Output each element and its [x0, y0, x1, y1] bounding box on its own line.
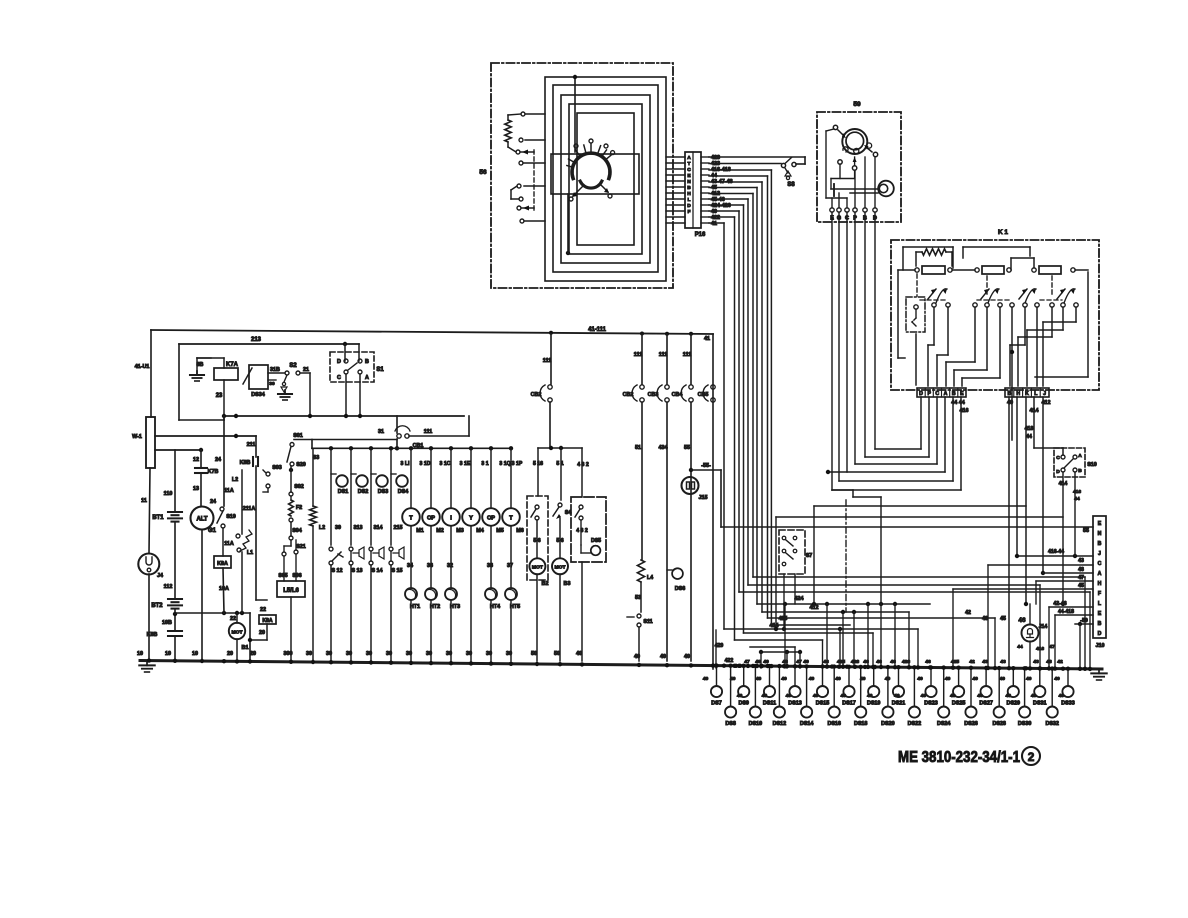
battery BT1: [168, 511, 182, 513]
svg-text:46: 46: [876, 659, 882, 665]
svg-text:40: 40: [684, 654, 690, 660]
svg-text:42: 42: [969, 659, 975, 665]
svg-text:DS17: DS17: [842, 701, 856, 707]
svg-text:DS25: DS25: [952, 701, 966, 707]
svg-text:42: 42: [1057, 659, 1063, 665]
svg-text:43: 43: [1078, 558, 1084, 564]
svg-text:111: 111: [543, 358, 551, 364]
sender 59 harness verticals: [831, 212, 833, 490]
svg-text:40: 40: [867, 693, 873, 699]
motor B1: [236, 613, 238, 623]
svg-text:24: 24: [210, 499, 216, 505]
inner rectangle around rotary wafer: [551, 154, 639, 194]
lamp J14: [1029, 604, 1031, 624]
ground at left end of bus: [146, 661, 148, 665]
svg-text:B: B: [1078, 468, 1082, 474]
P16 pin 11 (422): [666, 216, 685, 218]
switch box S1 (dashed): [330, 352, 374, 382]
P16 pin 1 (423): [666, 156, 685, 158]
P16 pin 4 (44): [666, 174, 685, 176]
svg-text:S7: S7: [806, 553, 813, 559]
svg-text:50: 50: [531, 651, 537, 657]
left feed wire 41-U1: [150, 330, 152, 417]
svg-text:BT2: BT2: [151, 603, 163, 609]
svg-text:41-U1: 41-U1: [135, 364, 150, 370]
svg-text:ALT: ALT: [196, 517, 207, 523]
svg-text:34: 34: [407, 563, 413, 569]
rotary lower contact arrows: [573, 186, 583, 196]
lamp DS31: [1039, 669, 1041, 687]
svg-text:40: 40: [737, 693, 743, 699]
svg-text:32: 32: [447, 563, 453, 569]
svg-text:L1: L1: [247, 550, 253, 556]
mesh vertical drops to bus: [784, 604, 786, 668]
arrow contact right of 59 body: [866, 147, 872, 152]
svg-text:3B: 3B: [197, 362, 204, 368]
rotary switch wafer: [572, 153, 610, 178]
svg-text:5 6: 5 6: [556, 538, 563, 544]
K1 contact dashed links: [920, 299, 946, 301]
lamp DS6: [667, 569, 672, 571]
bus y=416: [155, 435, 256, 437]
svg-text:40: 40: [809, 676, 815, 682]
wire - center feed in 56: [574, 77, 576, 152]
svg-text:46: 46: [925, 659, 931, 665]
svg-text:50: 50: [554, 651, 560, 657]
svg-text:F: F: [1098, 591, 1101, 597]
svg-text:40: 40: [634, 654, 640, 660]
svg-text:10A: 10A: [219, 586, 229, 592]
svg-text:38: 38: [487, 563, 493, 569]
svg-text:BT1: BT1: [152, 515, 164, 521]
svg-text:40: 40: [1005, 693, 1011, 699]
svg-text:DS14: DS14: [800, 721, 814, 727]
ground near K7A: [196, 358, 198, 375]
svg-text:A: A: [1078, 453, 1082, 459]
switch S02: [289, 492, 293, 496]
K1 inner sub-box (dash-dot): [906, 297, 925, 332]
svg-text:OP: OP: [427, 516, 435, 522]
svg-text:43: 43: [1000, 659, 1006, 665]
svg-text:416: 416: [1036, 646, 1044, 652]
svg-text:40: 40: [917, 676, 923, 682]
resistor R3 in K1: [1039, 266, 1061, 274]
svg-text:J15: J15: [699, 495, 708, 501]
rotary contact ticks: [576, 150, 580, 155]
main ground bus: [140, 661, 1102, 670]
switch S14: [369, 547, 373, 551]
svg-text:DS27: DS27: [979, 701, 993, 707]
svg-text:L4: L4: [647, 575, 653, 581]
wire from K1 terminal x=961: [960, 397, 962, 490]
svg-text:42: 42: [965, 610, 971, 616]
svg-text:30: 30: [466, 651, 472, 657]
svg-text:47: 47: [796, 659, 802, 665]
wire from BT2 junction to K6A column: [175, 612, 250, 614]
svg-text:T: T: [509, 516, 513, 522]
relay K6A: [214, 556, 231, 568]
svg-text:K8B: K8B: [240, 460, 251, 466]
svg-text:425: 425: [951, 659, 960, 665]
svg-text:CB5: CB5: [698, 392, 709, 398]
svg-text:30: 30: [406, 651, 412, 657]
svg-text:DS23: DS23: [924, 701, 938, 707]
svg-text:30: 30: [446, 651, 452, 657]
gauge M2 (OP): [430, 449, 432, 508]
lamp unit DS5 box: [571, 497, 606, 562]
wire from P16 pin 5: [709, 181, 762, 183]
svg-text:L: L: [1034, 391, 1037, 397]
svg-text:10: 10: [192, 651, 198, 657]
svg-text:DS3: DS3: [378, 489, 389, 495]
P16 pin 2 (423): [666, 162, 685, 164]
lamp DS7: [716, 666, 718, 686]
left contact circles lower: [517, 184, 521, 188]
svg-text:59: 59: [853, 101, 861, 108]
K1 top wire: [903, 246, 953, 248]
svg-text:S05: S05: [278, 573, 287, 579]
bus 31 feeding panel lamps: [312, 447, 511, 449]
svg-text:K: K: [1025, 391, 1029, 397]
svg-text:40: 40: [781, 676, 787, 682]
svg-text:3 1: 3 1: [481, 461, 488, 467]
svg-text:DS19: DS19: [867, 701, 881, 707]
svg-text:-55-: -55-: [701, 463, 711, 469]
heater HT4: [490, 526, 492, 588]
svg-text:418: 418: [1025, 426, 1034, 432]
wire from P16 pin 9: [709, 204, 744, 206]
motor unit B3: [558, 503, 562, 507]
svg-text:L2: L2: [232, 477, 238, 483]
svg-text:DS18: DS18: [854, 721, 868, 727]
wire from S01 to CB1 area: [294, 439, 397, 441]
svg-text:48: 48: [1078, 567, 1084, 573]
svg-text:D: D: [919, 391, 923, 397]
svg-text:CB3: CB3: [648, 392, 659, 398]
svg-text:10B: 10B: [162, 620, 172, 626]
svg-text:45: 45: [1000, 616, 1006, 622]
motor unit B2 (dashed box): [527, 496, 548, 580]
terminal C of 59: [845, 208, 849, 212]
svg-text:40: 40: [660, 654, 666, 660]
svg-text:111: 111: [634, 352, 642, 358]
svg-text:44: 44: [1026, 434, 1032, 440]
svg-text:43: 43: [1033, 659, 1039, 665]
svg-text:40: 40: [756, 676, 762, 682]
junction to J15: [689, 468, 693, 472]
lamp DS14: [806, 666, 808, 706]
svg-text:414: 414: [1059, 481, 1068, 487]
svg-text:DS6: DS6: [675, 586, 686, 592]
mechanical link dashes: [533, 150, 535, 210]
svg-text:46: 46: [1018, 617, 1026, 624]
staircase wire right of 59: [832, 489, 853, 491]
svg-text:E: E: [960, 391, 964, 397]
svg-text:S06: S06: [292, 573, 301, 579]
terminal P of 59: [853, 208, 857, 212]
svg-text:30: 30: [306, 651, 312, 657]
svg-text:M6: M6: [516, 528, 524, 534]
svg-text:40: 40: [972, 676, 978, 682]
svg-text:DS24: DS24: [937, 721, 951, 727]
lamp DS24: [943, 668, 945, 706]
svg-text:M1: M1: [416, 528, 424, 534]
right mesh verticals: [987, 565, 989, 668]
svg-text:DS31: DS31: [1033, 701, 1047, 707]
svg-text:B1: B1: [242, 645, 249, 651]
svg-text:F: F: [688, 209, 691, 215]
svg-text:424: 424: [795, 596, 804, 602]
svg-text:434: 434: [659, 445, 668, 451]
svg-text:20: 20: [259, 630, 265, 636]
P16 pin 5 (43-47-48): [666, 180, 685, 182]
svg-text:43: 43: [1046, 659, 1052, 665]
svg-text:426: 426: [851, 659, 860, 665]
svg-text:37: 37: [507, 563, 513, 569]
svg-text:4 3 2: 4 3 2: [576, 528, 588, 534]
svg-text:C: C: [1056, 455, 1060, 461]
svg-text:DS20: DS20: [881, 721, 895, 727]
svg-text:H: H: [1098, 581, 1102, 587]
lamp DS4: [390, 449, 392, 545]
svg-text:DS4: DS4: [398, 489, 409, 495]
lamp DS25: [958, 668, 960, 686]
lamp DS19: [873, 667, 875, 686]
svg-text:B3: B3: [564, 581, 571, 587]
svg-text:DS28: DS28: [992, 721, 1006, 727]
lamp DS22: [913, 667, 915, 706]
svg-text:M4: M4: [476, 528, 484, 534]
wire from 213 into S1: [344, 344, 346, 361]
K1 contact arms: [928, 289, 936, 299]
lamp DS17: [848, 667, 850, 686]
svg-text:36: 36: [427, 563, 433, 569]
svg-text:D: D: [687, 203, 691, 209]
K1 terminal strip B H K L J: [1005, 388, 1049, 397]
svg-text:B2: B2: [542, 581, 549, 587]
svg-text:K6A: K6A: [217, 561, 228, 567]
P16 pin 7 (412): [666, 192, 685, 194]
lamp DS3: [370, 449, 372, 545]
wire from K1 terminal x=929: [928, 397, 930, 457]
svg-text:30: 30: [386, 651, 392, 657]
svg-text:40: 40: [703, 676, 709, 682]
sender body circle: [842, 129, 867, 154]
svg-text:11A: 11A: [224, 488, 234, 494]
switch S8: [709, 156, 805, 158]
svg-text:425: 425: [779, 616, 788, 622]
svg-text:40: 40: [1058, 693, 1064, 699]
svg-text:40: 40: [840, 693, 846, 699]
svg-text:46: 46: [823, 659, 829, 665]
svg-text:20: 20: [227, 651, 233, 657]
svg-text:56: 56: [479, 169, 487, 176]
lamp unit L5/L6: [277, 581, 305, 597]
inductor L2 (panel): [312, 448, 314, 506]
pull-chain of S2: [284, 375, 287, 382]
svg-text:CB2: CB2: [623, 392, 634, 398]
svg-text:30: 30: [269, 381, 275, 387]
lamp DS18: [860, 667, 862, 706]
svg-text:DS22: DS22: [908, 721, 922, 727]
svg-text:S03: S03: [272, 465, 282, 471]
wire 211 / capacitor K8B column: [255, 436, 257, 457]
resistor R1 in K1: [922, 266, 945, 274]
svg-text:211: 211: [247, 442, 256, 448]
terminal D of 59: [873, 208, 877, 212]
svg-text:J14: J14: [1039, 624, 1048, 630]
svg-text:K8A: K8A: [262, 618, 273, 624]
svg-text:10: 10: [165, 651, 171, 657]
lamp DS32: [1051, 669, 1053, 706]
svg-text:A: A: [687, 155, 691, 161]
svg-text:111: 111: [683, 352, 691, 358]
svg-text:S02: S02: [294, 484, 304, 490]
svg-text:215: 215: [394, 525, 403, 531]
svg-text:111: 111: [659, 352, 667, 358]
wires into J10: [988, 564, 1093, 566]
svg-text:CB2: CB2: [531, 392, 542, 398]
wire from P16 pin 7: [709, 193, 753, 195]
switch S2: [285, 371, 289, 375]
svg-text:DS34: DS34: [251, 392, 265, 398]
svg-text:43: 43: [982, 616, 988, 622]
svg-text:DS7: DS7: [711, 701, 722, 707]
svg-text:B: B: [952, 391, 956, 397]
svg-text:55: 55: [1083, 528, 1089, 534]
svg-text:J4: J4: [157, 573, 163, 579]
lamp DS15: [822, 667, 824, 687]
wire from K1 terminal x=945: [944, 397, 946, 472]
svg-text:S10: S10: [1087, 462, 1097, 468]
svg-text:MOT: MOT: [231, 630, 242, 636]
svg-text:M3: M3: [456, 528, 464, 534]
relay K7A: [214, 368, 238, 380]
left contact group of 56 - resistor: [505, 120, 511, 142]
svg-text:DS16: DS16: [827, 721, 841, 727]
svg-text:53: 53: [635, 595, 641, 601]
svg-text:B: B: [687, 185, 691, 191]
svg-text:B: B: [1008, 391, 1012, 397]
svg-text:A: A: [365, 375, 369, 381]
svg-text:30: 30: [506, 651, 512, 657]
svg-text:425: 425: [837, 659, 846, 665]
wire 41-111 top bus: [151, 330, 713, 334]
wire 11: [149, 468, 150, 553]
wire from K1 terminal x=921: [920, 397, 922, 449]
feed split to B2 B3 432: [538, 447, 582, 449]
wire from P16 pin 4: [709, 175, 768, 177]
svg-text:M5: M5: [496, 528, 504, 534]
svg-text:S 12: S 12: [331, 568, 342, 574]
svg-text:F2: F2: [296, 505, 302, 511]
svg-text:M2: M2: [436, 528, 444, 534]
terminal B of 59: [863, 208, 867, 212]
svg-text:112: 112: [164, 584, 173, 590]
wire from P16 pin 11: [709, 216, 735, 218]
svg-text:41: 41: [704, 336, 710, 342]
capacitor K6B: [168, 630, 182, 632]
svg-text:A: A: [1098, 571, 1102, 577]
wire 24 column: [223, 416, 225, 506]
switch S13: [349, 547, 353, 551]
svg-text:S8: S8: [787, 182, 795, 188]
K1 terminal strip D P C A B E: [917, 388, 966, 397]
svg-text:12: 12: [193, 457, 199, 463]
svg-text:L: L: [688, 197, 691, 203]
svg-text:44: 44: [1074, 496, 1080, 502]
arrow into 59 body: [838, 130, 844, 136]
relay K8A: [259, 615, 276, 624]
alternator G1: [191, 507, 214, 530]
resistor L4: [637, 560, 644, 582]
resistor (zigzag) in K1: [922, 249, 946, 255]
gauge M3 (I): [450, 449, 452, 508]
battery BT2: [168, 598, 182, 600]
svg-text:416-44: 416-44: [1048, 549, 1064, 555]
svg-text:40: 40: [786, 693, 792, 699]
lamp DS11: [769, 666, 771, 686]
P16 pin 9 (424-426): [666, 204, 685, 206]
svg-text:10: 10: [137, 651, 143, 657]
svg-text:D: D: [337, 359, 341, 365]
svg-text:3 1P: 3 1P: [512, 461, 523, 467]
inductor L1 contacts: [236, 534, 240, 538]
svg-text:40: 40: [894, 693, 900, 699]
CB1 branch: [468, 416, 470, 436]
svg-text:P: P: [927, 391, 931, 397]
svg-text:40: 40: [921, 693, 927, 699]
svg-text:40: 40: [1007, 400, 1013, 406]
svg-text:S 13: S 13: [351, 568, 362, 574]
svg-text:DS33: DS33: [1061, 701, 1075, 707]
P16 pin 3 (416-418): [666, 168, 685, 170]
svg-text:C: C: [935, 391, 939, 397]
lamp DS8: [730, 666, 732, 706]
wire 41 from P16: [709, 222, 724, 224]
svg-text:40: 40: [945, 676, 951, 682]
circuit breaker CB3: [666, 334, 668, 384]
K1 J terminal wire 412: [1042, 397, 1044, 573]
svg-text:30: 30: [346, 651, 352, 657]
svg-text:W-1: W-1: [132, 434, 142, 440]
svg-text:3 1Q: 3 1Q: [499, 461, 510, 467]
svg-text:23: 23: [216, 393, 223, 399]
ground under S2: [284, 392, 286, 393]
wire 213: [179, 343, 359, 345]
lamp DS21: [898, 667, 900, 686]
svg-text:44: 44: [1017, 644, 1023, 650]
lamp DS9: [743, 666, 745, 686]
svg-text:40: 40: [813, 693, 819, 699]
runs y506 y517: [814, 505, 1026, 507]
P16 pin 8 (45-46): [666, 198, 685, 200]
wire from P16 pin 8: [709, 198, 748, 200]
svg-text:40: 40: [1031, 693, 1037, 699]
svg-text:E: E: [1098, 521, 1102, 527]
svg-text:40: 40: [977, 693, 983, 699]
svg-text:DS15: DS15: [816, 701, 830, 707]
svg-text:B: B: [1098, 621, 1102, 627]
P16 pin 6 (45): [666, 186, 685, 188]
terminal G of 59: [837, 208, 841, 212]
svg-text:5 16: 5 16: [533, 461, 543, 467]
svg-text:30: 30: [366, 651, 372, 657]
wire 416-44 to J10: [1017, 555, 1093, 557]
connector J10 strip: [1093, 516, 1106, 638]
svg-text:416: 416: [1073, 489, 1081, 495]
svg-text:3 1D: 3 1D: [420, 461, 431, 467]
